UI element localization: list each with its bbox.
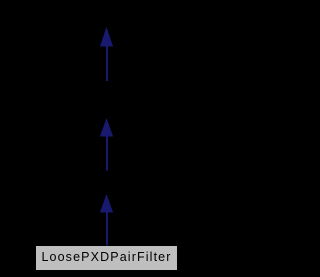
inheritance arrow 2 (middle) stem [106, 136, 108, 171]
inheritance arrow 1 (top) stem [106, 46, 108, 82]
class box LoosePXDPairFilter (gray fill; black border invisible on black) [36, 246, 177, 270]
inheritance arrow 3 (bottom) head [101, 195, 113, 212]
inheritance arrow 2 (middle) head [101, 119, 113, 136]
svg-text:LoosePXDPairFilter: LoosePXDPairFilter [41, 250, 171, 264]
inheritance arrow 3 (bottom) stem [106, 212, 108, 246]
inheritance arrow 1 (top) head [101, 28, 113, 46]
